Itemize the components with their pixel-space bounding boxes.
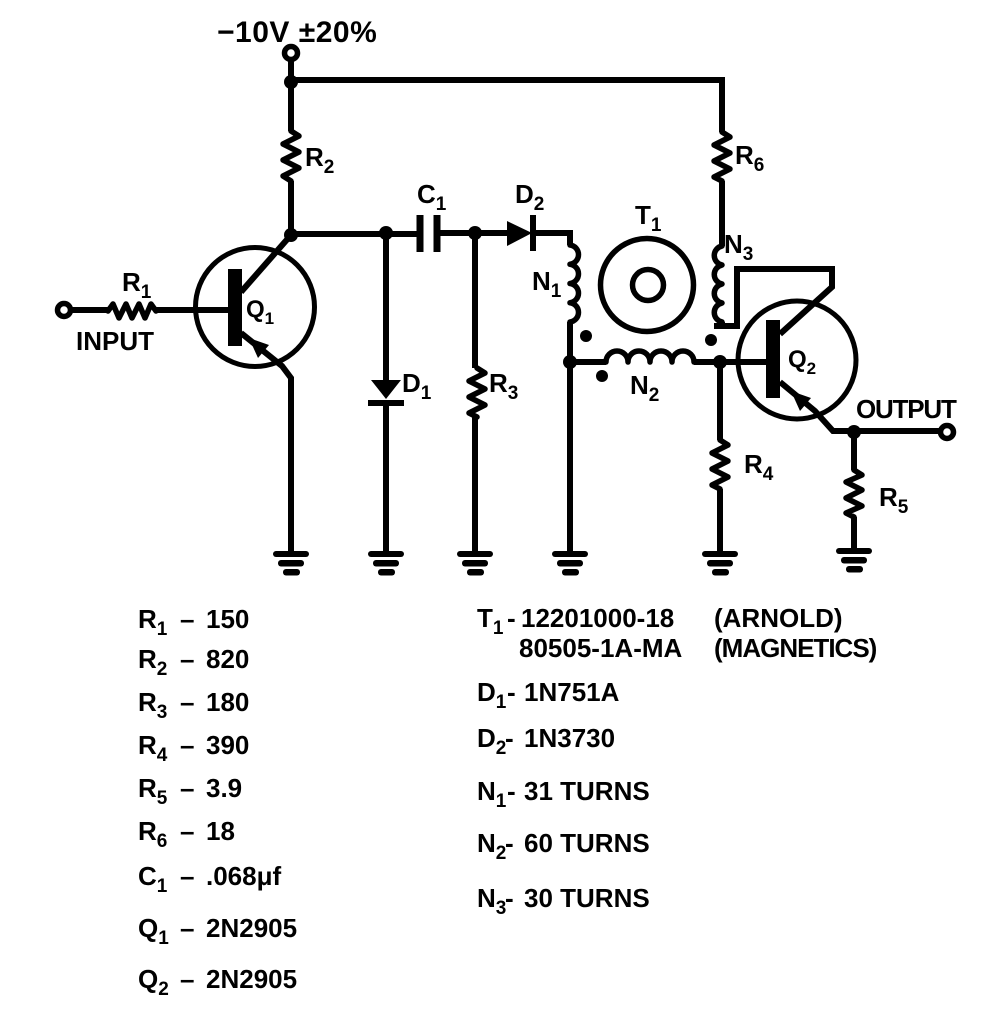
svg-text:–: – <box>180 644 194 674</box>
svg-text:.068μf: .068μf <box>206 861 282 891</box>
wire Q2 emitter to output <box>780 382 940 431</box>
diode D2 <box>507 221 532 246</box>
svg-text:–: – <box>180 730 194 760</box>
svg-text:(MAGNETICS): (MAGNETICS) <box>714 633 877 663</box>
node D1 tap <box>379 226 393 240</box>
supply terminal <box>285 47 298 60</box>
node R3 tap <box>468 226 482 240</box>
svg-text:–: – <box>180 861 194 891</box>
svg-text:60 TURNS: 60 TURNS <box>524 828 650 858</box>
transformer T1 core <box>601 239 694 332</box>
winding N1 <box>570 245 578 322</box>
wire top rail <box>291 80 722 132</box>
svg-text:390: 390 <box>206 730 249 760</box>
svg-text:1N3730: 1N3730 <box>524 723 615 753</box>
wire supply to R2 <box>288 82 294 131</box>
node output junction <box>847 425 861 439</box>
wire R1 to Q1 base <box>156 307 228 313</box>
svg-text:3.9: 3.9 <box>206 773 242 803</box>
resistor R2 <box>283 131 299 181</box>
svg-text:12201000-18: 12201000-18 <box>521 603 674 633</box>
svg-text:80505-1A-MA: 80505-1A-MA <box>519 633 683 663</box>
svg-text:180: 180 <box>206 687 249 717</box>
wire D2 to N1 <box>533 233 570 245</box>
transistor Q2 <box>738 301 856 419</box>
node N1-N2 junction <box>563 355 577 369</box>
wire Q1 emitter <box>241 333 291 554</box>
svg-text:-: - <box>505 723 514 753</box>
svg-text:2N2905: 2N2905 <box>206 964 297 994</box>
wire N3 bottom hook to Q2 collector <box>714 269 832 334</box>
svg-text:–: – <box>180 773 194 803</box>
node N3 phase dot <box>705 334 717 346</box>
resistor R4 <box>717 362 723 440</box>
wire terminal to top rail <box>288 59 294 82</box>
wire N2 row <box>570 359 766 365</box>
resistor R3 <box>472 233 478 368</box>
svg-text:-: - <box>507 776 516 806</box>
svg-text:2N2905: 2N2905 <box>206 913 297 943</box>
wire Q1 collector <box>241 235 291 292</box>
ground (R4) <box>702 551 738 576</box>
svg-text:(ARNOLD): (ARNOLD) <box>714 603 843 633</box>
wire collector node to C1 <box>291 231 420 237</box>
parts list left column <box>138 604 297 1000</box>
svg-text:31 TURNS: 31 TURNS <box>524 776 650 806</box>
svg-text:−10V ±20%: −10V ±20% <box>217 16 377 49</box>
svg-text:-: - <box>507 677 516 707</box>
wire R2 to collector node <box>288 181 294 235</box>
input terminal <box>58 304 71 317</box>
ground (D1) <box>368 551 404 576</box>
svg-text:–: – <box>180 913 194 943</box>
svg-text:30 TURNS: 30 TURNS <box>524 883 650 913</box>
svg-text:OUTPUT: OUTPUT <box>856 394 957 424</box>
resistor R6 <box>714 132 730 181</box>
svg-text:-: - <box>505 828 514 858</box>
svg-text:–: – <box>180 687 194 717</box>
node Q2 base junction <box>713 355 727 369</box>
svg-text:150: 150 <box>206 604 249 634</box>
capacitor C1 <box>420 215 437 252</box>
svg-text:–: – <box>180 604 194 634</box>
node collector junction <box>284 228 298 242</box>
svg-text:–: – <box>180 964 194 994</box>
winding N2 <box>606 351 694 362</box>
node N1 phase dot <box>580 330 592 342</box>
ground (R3) <box>457 551 493 576</box>
svg-text:-: - <box>507 603 516 633</box>
svg-text:820: 820 <box>206 644 249 674</box>
wire input to R1 <box>71 307 108 313</box>
svg-text:1N751A: 1N751A <box>524 677 620 707</box>
parts list right column <box>477 603 877 919</box>
resistor R5 <box>851 432 857 470</box>
wire N1 to junction <box>567 322 573 362</box>
wire C1 to D2 <box>437 230 507 236</box>
svg-text:-: - <box>505 883 514 913</box>
ground (Q1 emitter) <box>273 551 309 576</box>
diode D1 <box>383 233 389 380</box>
svg-text:INPUT: INPUT <box>76 326 154 356</box>
resistor R1 <box>108 304 156 318</box>
ground (R5) <box>836 548 872 573</box>
wire junction to ground <box>567 362 573 554</box>
node supply junction <box>284 75 298 89</box>
wire R6 to N3 <box>719 181 725 246</box>
node N2 phase dot <box>596 370 608 382</box>
svg-text:–: – <box>180 816 194 846</box>
winding N3 <box>714 246 722 322</box>
transistor Q1 <box>196 248 315 367</box>
output terminal <box>941 426 954 439</box>
ground (N1 column) <box>552 551 588 576</box>
svg-text:18: 18 <box>206 816 235 846</box>
